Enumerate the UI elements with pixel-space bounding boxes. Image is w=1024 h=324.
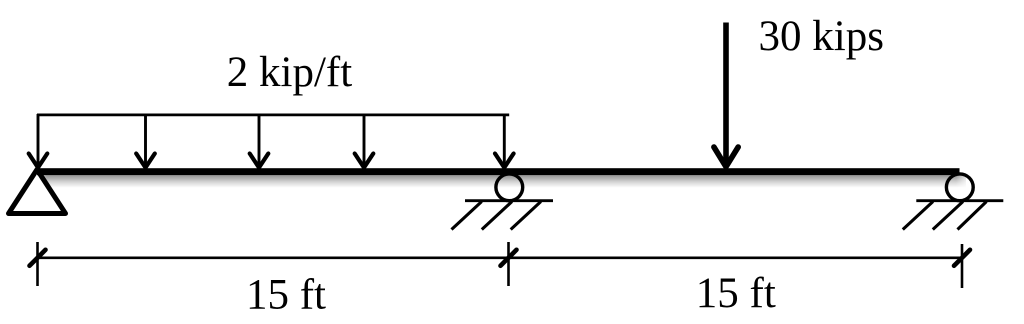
ground hatching (middle support) [452,202,541,230]
pin support (left triangle) [9,170,66,214]
dimension extension tick (left) [36,242,39,286]
svg-text:15 ft: 15 ft [246,271,326,318]
svg-text:15 ft: 15 ft [696,270,776,317]
roller support circle (right) [946,174,973,201]
oblique tick (left) [30,250,46,266]
dimension extension tick (right) [961,244,964,288]
dimension extension tick (middle) [507,242,510,286]
distributed load arrow 4 [355,114,374,168]
distributed load arrow 1 [29,114,48,168]
ground line (right support) [916,199,1003,202]
svg-text:2 kip/ft: 2 kip/ft [227,49,352,96]
roller support circle (middle) [496,174,523,201]
oblique tick (right) [954,250,970,266]
beam [37,168,960,175]
distributed load arrow 5 [495,114,514,168]
ground hatching (right support) [903,202,987,230]
distributed load top line [37,114,509,117]
dimension line (horizontal) [38,256,963,259]
svg-text:30 kips: 30 kips [759,13,884,60]
point load 30 kips arrow [714,23,738,167]
oblique tick (middle) [501,250,517,266]
ground line (middle support) [465,199,553,202]
beam drop shadow [44,175,966,188]
distributed load arrow 3 [250,114,269,168]
distributed load arrow 2 [136,114,155,168]
